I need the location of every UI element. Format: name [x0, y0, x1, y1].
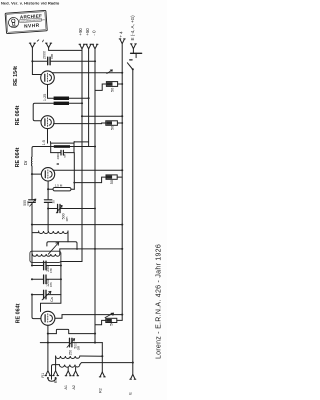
- wire bus below cap: [31, 202, 33, 224]
- wire filament bus to +4 rail: [82, 115, 122, 117]
- blocking capacitor C2 1000cm: [31, 275, 62, 284]
- terminal fork A1: [65, 371, 71, 376]
- wire coil L2 up: [59, 249, 61, 254]
- wire to +4 rail: [62, 314, 122, 316]
- wire L3 left end to R3 terminal: [55, 356, 57, 371]
- arrow on wire: [105, 313, 114, 318]
- svg-text:+ 4: + 4: [118, 31, 123, 38]
- AF tube U2 RE064t: [41, 116, 54, 129]
- svg-text:RE 064t: RE 064t: [16, 303, 22, 323]
- wire phone T1 down to tube U1 anode: [32, 48, 41, 75]
- filament rail E/-4: [132, 69, 134, 374]
- svg-text:1:25: 1:25: [43, 94, 47, 101]
- svg-text:1,5 M: 1,5 M: [55, 183, 63, 187]
- wire U3 filament to +4 rail: [53, 169, 122, 171]
- svg-text:NVHR: NVHR: [24, 23, 40, 30]
- antenna coil L4 lower winding: [59, 365, 79, 368]
- RF tube U4 RE064t: [41, 311, 55, 325]
- switch fixed contact: [130, 59, 132, 61]
- wire Tr1 a to +50 rail: [69, 97, 89, 99]
- wire U3 grid down: [47, 181, 49, 199]
- node left: [81, 115, 83, 117]
- resistor R2 50 (filament U2): [102, 121, 124, 126]
- wire Tr2 cap node down to grid leak: [73, 153, 75, 190]
- svg-text:cm: cm: [26, 201, 30, 206]
- variometer housing outline: [30, 251, 61, 262]
- node grid/feedback: [47, 207, 49, 209]
- wire Tr2 secondary top to +50 rail: [74, 141, 89, 143]
- svg-text:50: 50: [110, 180, 114, 184]
- wire E fork to jack: [132, 49, 134, 54]
- tiny jack mark above phones: [37, 40, 43, 42]
- capacitor across Tr2 secondary: [51, 143, 74, 155]
- wire Tr2 primary left to detector anode: [32, 147, 54, 157]
- wire U4 grid to supply wire: [55, 315, 62, 319]
- node: [76, 248, 78, 250]
- transformer Tr2 primary bar: [54, 145, 70, 148]
- node wire/+4 rail: [121, 72, 123, 74]
- lead grid leak left: [48, 188, 53, 190]
- svg-text:cm: cm: [77, 346, 81, 351]
- terminal fork -0: [92, 44, 98, 49]
- wire choke to anode node: [31, 166, 33, 174]
- choke Dr: [30, 157, 33, 167]
- arrow on wire: [107, 70, 113, 74]
- wire node to U3 anode: [32, 173, 41, 175]
- node wire/-0 vertical: [94, 333, 96, 335]
- svg-text:cm: cm: [50, 54, 54, 59]
- variometer coil L2: [32, 254, 59, 256]
- svg-text:E: E: [128, 392, 132, 395]
- node filament/return wire: [47, 342, 49, 344]
- svg-text:2000: 2000: [43, 51, 47, 59]
- resistor R1 50 (filament U1): [95, 82, 123, 91]
- svg-text:50: 50: [110, 126, 114, 130]
- headphone jack bar: [131, 52, 142, 54]
- svg-text:cm: cm: [49, 268, 53, 273]
- node: [101, 355, 103, 357]
- shorting link R1-R3: [48, 378, 56, 381]
- svg-text:30: 30: [52, 200, 56, 204]
- svg-text:- 0: - 0: [91, 30, 96, 36]
- node: [73, 182, 75, 184]
- terminal fork R1: [45, 371, 51, 376]
- capacitor 2000cm across phones: [32, 57, 95, 65]
- transformer Tr1 winding a: [54, 97, 69, 101]
- tuning capacitor 500cm (bus line): [29, 199, 36, 206]
- filament rail +4: [121, 44, 123, 321]
- wire U1 grid to +4 rail: [52, 72, 122, 74]
- resistor R4 50 (filament U4): [95, 318, 122, 324]
- resistor R3 50 (filament U3): [102, 175, 123, 183]
- svg-text:Lorenz - E.R.N.A. 426 - Jahr 1: Lorenz - E.R.N.A. 426 - Jahr 1926: [156, 244, 163, 359]
- detector tube U3 RE064t: [41, 168, 54, 181]
- wire U1 filament to transformer Tr1: [48, 85, 54, 99]
- wire U4 filament down to R1 terminal: [47, 325, 49, 370]
- svg-text:R3: R3: [54, 378, 58, 383]
- node Tr1a/+50: [88, 97, 90, 99]
- wire grid leak loop to -0 rail: [74, 182, 101, 184]
- terminal fork R2: [99, 372, 105, 377]
- svg-text:cm: cm: [49, 282, 53, 287]
- bus wire through variometer: [31, 225, 33, 266]
- terminal fork +90: [79, 44, 85, 49]
- phone terminal T2 (right): [46, 43, 52, 48]
- svg-text:Ca: Ca: [50, 297, 54, 302]
- svg-text:RE 064t: RE 064t: [15, 105, 21, 125]
- tiny ticks above U3: [57, 163, 59, 164]
- svg-text:Dr: Dr: [23, 160, 28, 165]
- terminal fork A2: [73, 371, 79, 376]
- svg-text:A2: A2: [72, 385, 76, 390]
- node link R1: [47, 377, 49, 379]
- wire Tr1 b to +90 rail: [69, 102, 82, 104]
- node wire/-0 vertical: [94, 248, 96, 250]
- grid capacitor (in U3 grid line): [44, 200, 51, 209]
- terminal fork E: [130, 374, 136, 379]
- wire L1 right end down: [67, 231, 69, 242]
- node phone/anode: [31, 60, 33, 62]
- svg-text:A1: A1: [64, 385, 68, 390]
- terminal fork +4: [119, 39, 125, 44]
- transformer Tr1 winding b: [54, 102, 69, 105]
- svg-text:+90: +90: [78, 28, 83, 36]
- antenna coil L3 upper winding: [56, 356, 80, 358]
- wire L3 to R2 stem: [80, 355, 103, 357]
- anode supply rail -0: [94, 49, 96, 343]
- terminal fork R3: [53, 371, 59, 376]
- bus wire down to RF tube grid: [32, 295, 41, 319]
- phone terminal T1 (left): [29, 43, 35, 48]
- variometer arrow: [48, 243, 58, 255]
- node grid: [47, 188, 49, 190]
- node wire/+4 rail: [121, 248, 123, 250]
- wire U2 filament right: [54, 123, 102, 125]
- node Tr1b/+90: [81, 102, 83, 104]
- node filament/wire: [47, 333, 49, 335]
- node detector anode: [31, 173, 33, 175]
- svg-text:Ned. Ver. v. Historie v/d Radi: Ned. Ver. v. Historie v/d Radio: [1, 0, 60, 5]
- svg-text:50: 50: [110, 321, 114, 325]
- variometer coil L1: [32, 231, 68, 233]
- wire U2 grid down to transformer Tr2: [47, 129, 49, 143]
- wire down to R2 terminal: [101, 343, 103, 372]
- node wire/+4 rail: [121, 169, 123, 171]
- wire phone T2 to +90 rail: [49, 48, 82, 51]
- svg-text:RE 154t: RE 154t: [13, 66, 19, 86]
- grid leak resistor 5M: [53, 188, 71, 191]
- lead grid leak right: [71, 188, 74, 190]
- wire regeneration to +4 rail: [60, 248, 122, 250]
- node Tr2/-0: [94, 145, 96, 147]
- svg-text:250: 250: [68, 350, 72, 356]
- svg-text:R1: R1: [41, 373, 45, 378]
- wire Tr2 primary to -0 rail: [70, 146, 95, 148]
- node wire/+4: [121, 224, 123, 226]
- terminal fork E: [130, 44, 136, 49]
- return wire with capacitor 500: [40, 338, 102, 347]
- battery switch arm: [127, 63, 132, 69]
- coil tap to A1: [67, 367, 69, 371]
- svg-text:RE 064t: RE 064t: [15, 147, 21, 167]
- svg-text:cm: cm: [65, 217, 69, 222]
- op tube U1 RE154t: [41, 71, 55, 85]
- svg-text:+50: +50: [85, 28, 90, 36]
- node cap to -0 rail: [94, 60, 96, 62]
- node right: [121, 115, 123, 117]
- node return/-0: [94, 342, 96, 344]
- anode supply rail +90: [41, 49, 83, 312]
- svg-text:2000: 2000: [56, 153, 60, 159]
- coupling loop wire: [47, 242, 77, 249]
- variable capacitor C3 Ca: [31, 290, 61, 300]
- node wire/+4 rail: [121, 314, 123, 316]
- wire grid cap down to coil L1: [47, 209, 49, 232]
- svg-text:50: 50: [110, 88, 114, 92]
- node bus / filament wire: [31, 224, 33, 226]
- terminal fork +50: [86, 44, 92, 49]
- wire L4 right to E rail: [80, 363, 133, 365]
- coil tap to A2: [75, 367, 77, 371]
- feedback capacitor 500cm: [48, 204, 95, 213]
- node wire/E rail: [132, 362, 134, 364]
- node link R3: [55, 377, 57, 379]
- transformer Tr2 secondary line: [50, 142, 74, 144]
- wire Tr1 b to tube U2 anode: [33, 103, 53, 121]
- anode supply rail +50: [88, 49, 90, 147]
- node feedback/-0 vertical: [94, 208, 96, 210]
- blocking capacitor C1 250cm: [31, 261, 62, 270]
- wire L4 left end down: [52, 365, 60, 380]
- wire filament with bridge hump: [48, 329, 95, 333]
- wire bus above cap: [31, 174, 33, 200]
- svg-text:E (-4, A, +G): E (-4, A, +G): [130, 15, 135, 41]
- NVHR archive stamp: [5, 10, 47, 33]
- wire bus to +4 rail: [32, 224, 122, 226]
- svg-text:1:5: 1:5: [42, 140, 46, 145]
- svg-text:R2: R2: [99, 388, 103, 393]
- node switch/E-rail: [132, 68, 134, 70]
